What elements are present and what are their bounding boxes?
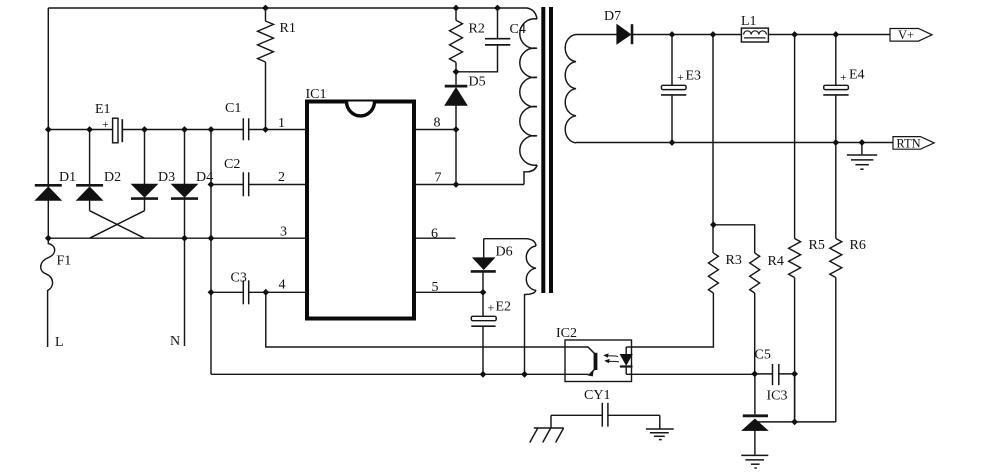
svg-text:D7: D7 [604, 9, 621, 24]
svg-text:6: 6 [431, 227, 438, 242]
svg-text:2: 2 [278, 170, 285, 185]
svg-text:D4: D4 [196, 170, 213, 185]
svg-text:E2: E2 [496, 300, 512, 315]
svg-text:V+: V+ [898, 28, 914, 42]
svg-text:R1: R1 [280, 21, 296, 36]
svg-text:5: 5 [432, 280, 439, 295]
svg-text:C5: C5 [755, 348, 771, 363]
svg-text:C3: C3 [231, 271, 247, 286]
svg-text:E3: E3 [686, 69, 702, 84]
svg-text:D6: D6 [496, 245, 513, 260]
svg-text:C2: C2 [224, 157, 240, 172]
svg-text:D1: D1 [59, 170, 76, 185]
svg-text:E1: E1 [95, 102, 111, 117]
svg-text:R6: R6 [850, 238, 866, 253]
svg-text:R3: R3 [726, 253, 742, 268]
svg-text:+: + [102, 117, 109, 131]
svg-text:1: 1 [278, 116, 285, 131]
svg-text:N: N [170, 334, 180, 349]
svg-text:R2: R2 [469, 22, 485, 37]
svg-text:D5: D5 [469, 75, 486, 90]
svg-text:IC1: IC1 [306, 87, 327, 102]
svg-text:F1: F1 [57, 254, 72, 269]
svg-text:+: + [840, 70, 847, 84]
svg-text:D3: D3 [158, 170, 175, 185]
svg-text:C4: C4 [510, 22, 526, 37]
svg-text:CY1: CY1 [584, 388, 610, 403]
svg-text:L1: L1 [741, 14, 757, 29]
svg-text:+: + [677, 70, 684, 84]
svg-text:7: 7 [435, 171, 442, 186]
svg-text:L: L [55, 335, 64, 350]
svg-text:C1: C1 [225, 101, 241, 116]
svg-text:+: + [488, 301, 495, 315]
svg-text:R5: R5 [809, 238, 825, 253]
svg-text:IC3: IC3 [767, 389, 788, 404]
svg-text:8: 8 [434, 116, 441, 131]
svg-text:E4: E4 [849, 68, 865, 83]
svg-text:IC2: IC2 [556, 326, 577, 341]
svg-text:RTN: RTN [896, 136, 920, 150]
svg-text:3: 3 [280, 225, 287, 240]
svg-text:R4: R4 [768, 254, 784, 269]
svg-text:4: 4 [279, 278, 286, 293]
svg-text:D2: D2 [104, 170, 121, 185]
